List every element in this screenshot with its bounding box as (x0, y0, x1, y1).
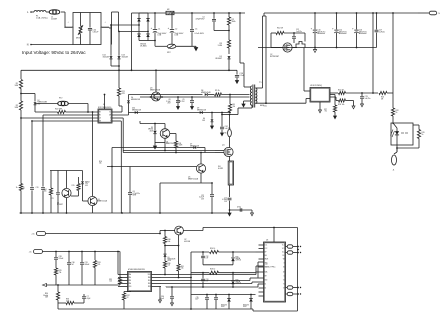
wire (177, 103, 179, 106)
svg-text:FUSB_TYPE-C: FUSB_TYPE-C (266, 267, 276, 269)
jumper J1 (392, 155, 397, 165)
wire (55, 252, 57, 258)
junction (68, 251, 70, 253)
wire (112, 117, 123, 119)
svg-text:PB0: PB0 (148, 277, 151, 279)
wire (211, 197, 213, 213)
junction (228, 294, 230, 296)
junction (372, 92, 374, 94)
junction (118, 69, 120, 71)
junction (118, 65, 120, 67)
junction (190, 277, 192, 279)
wire (92, 112, 94, 181)
wire (206, 300, 208, 309)
resistor R9 (215, 93, 222, 96)
cap C35 (205, 297, 209, 299)
wire (286, 246, 288, 248)
junction (232, 251, 234, 253)
junction (190, 308, 192, 310)
wire (129, 94, 203, 96)
inductor L2 winding B (101, 27, 109, 28)
svg-text:6V05: 6V05 (168, 260, 172, 262)
svg-text:INT: INT (265, 276, 267, 278)
junction (171, 12, 173, 14)
svg-text:VDD: VDD (265, 280, 268, 282)
wire (392, 116, 394, 124)
junction (211, 182, 213, 184)
svg-text:R18 10k: R18 10k (338, 104, 344, 106)
svg-text:PB1: PB1 (148, 280, 151, 282)
resistor R2a HV (19, 101, 22, 110)
svg-text:U6: U6 (266, 239, 268, 241)
wire (50, 195, 52, 213)
wire (140, 123, 165, 125)
wire (128, 95, 130, 100)
wire (259, 266, 264, 268)
wire (228, 13, 230, 17)
wire (66, 171, 68, 189)
junction (232, 272, 234, 274)
wire (119, 284, 121, 285)
svg-text:47k: 47k (98, 264, 101, 266)
svg-text:FB: FB (99, 115, 101, 117)
svg-text:1uF,25v: 1uF,25v (379, 31, 385, 33)
wire (259, 258, 264, 260)
wire (228, 302, 230, 309)
wire (80, 13, 82, 26)
junction (147, 31, 149, 33)
junction (221, 112, 223, 114)
wire (356, 13, 358, 29)
wire (236, 70, 238, 74)
wire (392, 13, 394, 108)
wire (171, 32, 173, 46)
svg-text:NTC: NTC (167, 52, 172, 54)
svg-text:1000H: 1000H (51, 19, 57, 21)
junction (202, 251, 204, 253)
wire (42, 115, 44, 187)
wire (250, 295, 252, 299)
svg-text:0.35: 0.35 (85, 185, 88, 187)
wire (418, 125, 420, 130)
junction (175, 152, 177, 154)
junction (229, 209, 231, 211)
wire (286, 287, 288, 289)
svg-text:RT2: RT2 (59, 98, 62, 100)
svg-text:PB3: PB3 (148, 286, 151, 288)
svg-text:HYPERFET: HYPERFET (270, 56, 279, 58)
wire (314, 48, 316, 50)
wire (123, 150, 215, 152)
wire (46, 233, 161, 235)
wire (164, 248, 166, 254)
wire (178, 235, 180, 264)
wire (31, 121, 33, 187)
junction (110, 24, 112, 26)
wire (139, 12, 148, 14)
wire (346, 100, 354, 102)
transistor Q4 (160, 129, 170, 139)
rail aux supply (21, 69, 237, 71)
wire (159, 287, 161, 301)
inductor L1 (49, 10, 60, 15)
wire (262, 16, 264, 88)
wire (251, 105, 253, 108)
wire (418, 139, 420, 149)
wire (118, 286, 128, 288)
wire (147, 13, 149, 41)
wire (215, 295, 217, 298)
wire (334, 95, 336, 106)
wire (396, 135, 398, 152)
svg-text:X: X (110, 118, 111, 120)
svg-text:MMSD4148: MMSD4148 (197, 109, 206, 111)
fuse F1 (34, 11, 46, 13)
wire (244, 86, 250, 88)
junction (314, 47, 316, 49)
svg-text:V1: V1 (283, 280, 285, 282)
junction (118, 31, 120, 33)
svg-text:10k: 10k (44, 191, 47, 193)
svg-text:73k: 73k (59, 272, 62, 274)
junction (372, 12, 374, 14)
svg-text:470p: 470p (237, 207, 241, 209)
wire (121, 106, 123, 112)
wire (20, 191, 22, 214)
wire (55, 260, 57, 268)
junction (297, 287, 299, 289)
wire (191, 272, 209, 274)
wire (335, 97, 337, 101)
junction (164, 150, 166, 152)
junction (211, 212, 213, 214)
wire (155, 70, 157, 92)
svg-text:VC2: VC2 (282, 248, 285, 250)
junction (293, 32, 295, 34)
wire (161, 277, 191, 279)
wire (92, 181, 94, 196)
junction (57, 284, 59, 286)
wire (306, 98, 310, 100)
svg-text:S1: S1 (283, 267, 285, 269)
wire (111, 65, 119, 67)
bridge diode 2 (146, 18, 149, 21)
wire (34, 94, 36, 102)
mosfet Q1 (224, 147, 233, 156)
wire (118, 32, 120, 45)
junction (314, 12, 316, 14)
wire (165, 286, 167, 289)
esd diode D18 (249, 298, 253, 301)
wire (251, 282, 253, 284)
wire (104, 95, 106, 110)
wire (397, 147, 419, 149)
wire (213, 13, 215, 19)
diode D5 (135, 111, 138, 114)
wire (372, 13, 374, 93)
svg-text:S2: S2 (283, 272, 285, 274)
diode D8 (205, 93, 208, 96)
wire (123, 152, 215, 154)
wire (110, 45, 112, 56)
wire (35, 103, 58, 105)
wire (161, 274, 256, 276)
svg-text:2.2uF 25V: 2.2uF 25V (177, 101, 186, 103)
wire (258, 47, 335, 49)
wire (21, 117, 98, 119)
op-amp U3 NCP4305 (310, 88, 330, 103)
wire (78, 177, 80, 184)
resistor R15 (77, 184, 80, 191)
svg-text:MMBT2222A: MMBT2222A (188, 177, 199, 180)
wire (164, 268, 166, 275)
junction (202, 272, 204, 274)
svg-text:Aluminum: Aluminum (339, 32, 347, 35)
wire (83, 200, 89, 202)
wire (118, 70, 120, 88)
wire (191, 251, 209, 253)
wire (81, 252, 83, 263)
wire (263, 13, 265, 16)
wire (124, 308, 253, 310)
wire (259, 244, 264, 246)
svg-text:10k: 10k (168, 241, 171, 243)
svg-text:G: G (283, 263, 284, 265)
wire (57, 195, 59, 213)
sec cap bus (335, 47, 377, 49)
wire (154, 143, 156, 147)
wire (42, 190, 44, 213)
wire (152, 280, 162, 282)
junction (229, 114, 231, 116)
svg-text:MMBT2907A: MMBT2907A (150, 88, 161, 91)
wire (263, 15, 267, 17)
svg-text:5V6T1G: 5V6T1G (236, 260, 242, 262)
svg-text:CC1: CC1 (265, 245, 268, 247)
bridge diode 1 (137, 18, 140, 21)
svg-text:C19: C19 (36, 187, 39, 189)
wire (346, 92, 374, 94)
resistor R13 (19, 184, 22, 191)
wire (215, 150, 224, 152)
wire (232, 252, 234, 257)
transistor Q6 (88, 196, 97, 205)
cap C18 (239, 208, 241, 212)
svg-text:D1+: D1+ (282, 252, 285, 254)
wire (376, 13, 378, 30)
wire (319, 102, 321, 110)
wire (139, 121, 141, 124)
svg-text:DR: DR (109, 115, 111, 117)
wire (393, 123, 397, 128)
svg-text:CC2: CC2 (265, 248, 268, 250)
wire (222, 94, 250, 96)
svg-text:Q1: Q1 (222, 145, 225, 147)
junction (229, 94, 231, 96)
wire (20, 212, 230, 214)
wire (112, 24, 140, 26)
wire (152, 274, 162, 276)
cap C15 (30, 187, 34, 189)
junction (104, 94, 106, 96)
wire (251, 210, 253, 213)
junction (159, 212, 161, 214)
junction (376, 12, 378, 14)
svg-text:10k: 10k (168, 265, 171, 267)
junction (154, 40, 156, 42)
svg-text:Aluminum: Aluminum (359, 32, 367, 35)
svg-text:390k: 390k (232, 21, 236, 23)
wire (112, 11, 119, 13)
resistor R22b (391, 108, 394, 116)
wire (128, 103, 130, 115)
junction (164, 245, 166, 247)
wire (46, 284, 120, 286)
svg-text:5.6M: 5.6M (218, 45, 223, 47)
junction (200, 152, 202, 154)
wire (20, 89, 22, 102)
wire (191, 97, 193, 100)
wire (197, 147, 206, 149)
junction (273, 227, 275, 229)
junction (356, 12, 358, 14)
wire (229, 201, 231, 213)
svg-text:FOD817: FOD817 (57, 204, 63, 206)
terminal -Vo (34, 249, 43, 253)
wire (222, 114, 238, 116)
wire (58, 308, 124, 310)
wire (83, 294, 85, 296)
wire (265, 16, 267, 103)
wire (170, 133, 176, 135)
junction (191, 96, 193, 98)
wire (175, 134, 177, 142)
svg-text:DP: DP (265, 252, 267, 254)
junction (177, 96, 179, 98)
wire (200, 173, 202, 183)
wire (119, 252, 121, 278)
wire (252, 309, 254, 311)
svg-text:VDD: VDD (148, 274, 151, 276)
diode D13 (117, 56, 120, 59)
junction (31, 120, 33, 122)
junction (154, 12, 156, 14)
wire (160, 182, 212, 184)
svg-text:Y1: Y1 (283, 284, 285, 286)
wire (166, 286, 258, 288)
wire (80, 34, 82, 44)
svg-text:1KJB05: 1KJB05 (140, 45, 147, 47)
junction (121, 212, 123, 214)
svg-text:470pF/2KV: 470pF/2KV (196, 18, 206, 20)
wire (221, 113, 223, 127)
wire (112, 111, 122, 113)
wire (159, 231, 161, 234)
pass transistor Q7 (175, 226, 184, 235)
svg-text:CS: CS (99, 118, 101, 120)
wire (171, 287, 173, 296)
resistor R28b (210, 271, 219, 274)
junction (164, 230, 166, 232)
wire (353, 101, 355, 107)
svg-text:1.6A, 250Vac: 1.6A, 250Vac (36, 17, 48, 20)
junction (396, 147, 398, 149)
svg-text:10k: 10k (99, 163, 102, 165)
wire (82, 171, 84, 181)
wire (191, 294, 256, 296)
wire (117, 252, 119, 275)
wire (129, 195, 131, 213)
wire (35, 111, 58, 113)
connector CC1 (287, 245, 293, 248)
resistor R29 (54, 268, 57, 275)
wire (155, 142, 165, 144)
wire (334, 112, 336, 116)
junction (300, 287, 301, 288)
wire (204, 148, 206, 153)
wire (257, 284, 259, 287)
bridge diode 4 (146, 34, 149, 37)
wire (112, 114, 129, 116)
junction (138, 24, 140, 26)
wire (50, 171, 52, 189)
mosfet Q2 sync (283, 43, 292, 52)
cap C7 (82, 296, 86, 298)
svg-text:U7: U7 (266, 264, 268, 266)
wire (228, 25, 230, 40)
zener D11 (163, 254, 166, 257)
wire (68, 265, 70, 285)
wire (206, 295, 208, 298)
wire (232, 284, 234, 287)
wire (418, 12, 429, 14)
wire (171, 299, 173, 303)
diode D1 (227, 56, 230, 59)
wire (387, 92, 393, 94)
fusible resistor R5 (228, 129, 232, 137)
svg-text:PB2: PB2 (148, 283, 151, 285)
junction (150, 96, 152, 98)
svg-text:NCP1236BD65R2G: NCP1236BD65R2G (98, 107, 112, 109)
junction (87, 111, 89, 113)
svg-text:-Vo: -Vo (29, 252, 32, 254)
wire (330, 96, 336, 98)
wire (229, 157, 231, 162)
wire (232, 273, 234, 280)
svg-text:1nF: 1nF (206, 281, 209, 283)
bus left arrow (43, 284, 47, 287)
junction (81, 251, 83, 253)
wire (202, 228, 204, 231)
junction (20, 212, 22, 214)
filter cap C17 (228, 197, 232, 199)
wire (57, 285, 59, 292)
svg-text:MOV: MOV (76, 38, 81, 40)
optocoupler U2 phototransistor (62, 188, 71, 197)
svg-text:10k: 10k (109, 281, 112, 283)
junction (111, 166, 113, 168)
svg-text:22: 22 (127, 297, 129, 299)
wire (190, 252, 192, 309)
resistor R33 (66, 301, 74, 304)
svg-text:+Vo: +Vo (31, 234, 34, 236)
svg-text:10M: 10M (15, 85, 19, 87)
wire (57, 300, 59, 309)
wire (152, 283, 162, 285)
junction (356, 47, 358, 49)
wire (232, 261, 234, 265)
wire (286, 293, 288, 295)
